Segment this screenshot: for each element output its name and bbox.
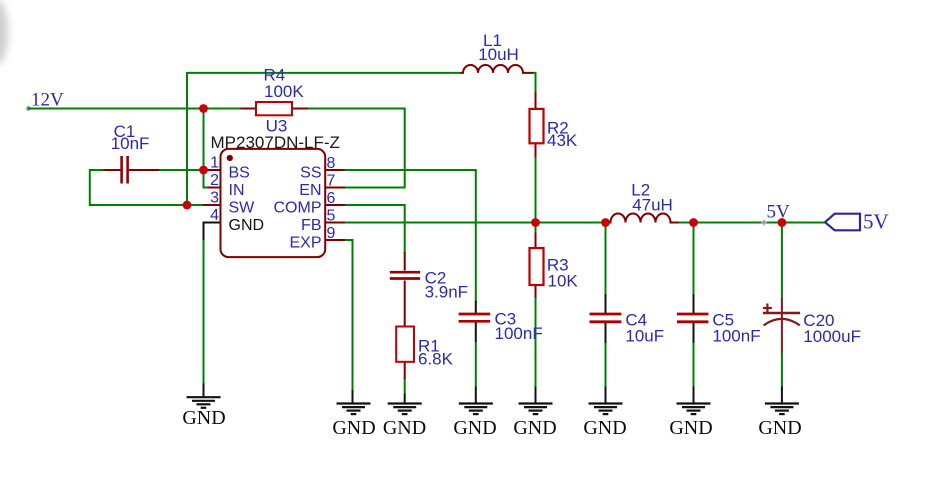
wire R4 right to EN corner	[308, 109, 405, 188]
wire C4 column	[605, 223, 607, 295]
capacitor C1	[104, 169, 121, 171]
wire R1 bottom green	[404, 378, 406, 394]
svg-text:BS: BS	[229, 164, 250, 181]
capacitor C4	[590, 313, 622, 316]
node 12V pin marker	[26, 106, 30, 110]
resistor R1	[404, 362, 406, 380]
pin 1 BS	[208, 169, 222, 171]
wire COMP to C2	[344, 205, 405, 253]
svg-text:GND: GND	[758, 417, 801, 439]
ground GND3 (R1)	[404, 394, 406, 404]
wire C5 column	[693, 223, 695, 295]
pin 8 SS	[326, 169, 346, 171]
ground GND4 (C3)	[475, 387, 477, 404]
junction BS node	[199, 166, 208, 175]
ground GND7 (C5)	[693, 387, 695, 404]
node 5V small marker	[761, 220, 767, 226]
svg-text:10uF: 10uF	[625, 327, 664, 346]
ground GND5 (R3)	[535, 387, 537, 404]
svg-text:SS: SS	[300, 164, 321, 181]
wire SS to C3	[344, 170, 476, 302]
inductor L2	[609, 214, 679, 223]
ground GND8 (C20)	[781, 387, 783, 404]
wire C1 right to BS junction	[158, 169, 204, 171]
wire BS junction to IN pin	[204, 169, 209, 188]
resistor R2	[535, 92, 537, 109]
wire GND pin4 black elbow	[204, 223, 222, 242]
svg-text:8: 8	[327, 155, 336, 172]
wire R2 bottom to rail	[535, 156, 537, 223]
svg-text:EN: EN	[299, 182, 321, 199]
ground GND1 (pin4)	[187, 397, 221, 408]
resistor R3	[535, 223, 537, 234]
svg-text:GND: GND	[669, 417, 712, 439]
wire L1 right corner	[532, 73, 536, 93]
svg-text:GND: GND	[453, 417, 496, 439]
svg-text:GND: GND	[332, 417, 375, 439]
svg-text:10nF: 10nF	[111, 134, 150, 153]
svg-text:3.9nF: 3.9nF	[425, 283, 468, 302]
wire C20 column green parts	[781, 223, 783, 300]
resistor R4	[241, 108, 257, 110]
wire C3 bottom green	[475, 342, 477, 387]
svg-text:1000uF: 1000uF	[803, 327, 861, 346]
wire C1 left horizontal	[90, 169, 105, 171]
wire 12V horizontal	[29, 108, 242, 110]
svg-text:9: 9	[327, 225, 336, 242]
wire rail L2 to 5V connector	[678, 222, 826, 224]
svg-text:4: 4	[210, 207, 219, 224]
capacitor C3	[459, 313, 491, 316]
ground GND2 (EXP)	[337, 404, 371, 415]
svg-text:5: 5	[327, 208, 336, 225]
svg-text:GND: GND	[182, 407, 225, 429]
IC pin-1 marker dot	[227, 155, 233, 161]
svg-text:7: 7	[327, 173, 336, 190]
junction rail C4	[601, 218, 610, 227]
wire EXP to ground	[344, 240, 353, 391]
wire C1 bottom to SW	[89, 204, 204, 206]
svg-text:MP2307DN-LF-Z: MP2307DN-LF-Z	[211, 133, 340, 152]
screen artifact top-left	[0, 0, 8, 64]
svg-text:COMP: COMP	[274, 199, 322, 216]
svg-text:100nF: 100nF	[495, 324, 543, 343]
pin 7 EN	[326, 187, 346, 189]
svg-text:GND: GND	[229, 217, 265, 234]
svg-text:5V: 5V	[767, 202, 791, 223]
ground GND6 (C4)	[605, 387, 607, 404]
capacitor C20 polarized	[781, 298, 783, 353]
junction rail C5	[689, 218, 698, 227]
junction 12V/R4	[199, 104, 208, 113]
junction rail R2	[531, 218, 540, 227]
svg-text:GND: GND	[383, 417, 426, 439]
svg-text:EXP: EXP	[289, 234, 321, 251]
svg-text:2: 2	[210, 172, 219, 189]
capacitor C2	[404, 252, 406, 271]
pin 5 FB	[326, 222, 346, 224]
svg-text:100K: 100K	[264, 82, 304, 101]
pin 3 SW	[203, 204, 222, 206]
wire C1 left vertical	[89, 169, 91, 205]
wire FB rail left	[344, 222, 611, 224]
capacitor C5	[677, 313, 708, 316]
svg-text:GND: GND	[583, 417, 626, 439]
wire C3 black stubs	[475, 301, 477, 313]
pin 6 COMP	[326, 204, 346, 206]
junction rail C20	[778, 218, 787, 227]
svg-text:100nF: 100nF	[712, 327, 760, 346]
inductor L1	[460, 65, 533, 73]
svg-text:10K: 10K	[548, 271, 579, 290]
svg-text:IN: IN	[229, 182, 245, 199]
svg-text:6: 6	[327, 190, 336, 207]
port 5V connector	[825, 214, 860, 231]
wire R3 bottom green	[535, 297, 537, 387]
svg-text:47uH: 47uH	[632, 196, 673, 215]
svg-text:3: 3	[210, 190, 219, 207]
svg-text:10uH: 10uH	[478, 45, 519, 64]
pin 9 EXP	[326, 239, 346, 241]
IC U3 MP2307DN-LF-Z body	[221, 149, 326, 257]
wire GND pin4 down green	[203, 240, 205, 384]
wire 12V to BS vertical	[203, 109, 205, 171]
svg-text:6.8K: 6.8K	[418, 350, 454, 369]
wire SW riser vertical	[186, 73, 188, 206]
svg-text:5V: 5V	[863, 210, 889, 234]
junction SW node	[183, 201, 192, 210]
pin 2 IN	[208, 187, 222, 189]
wire top horizontal to L1	[186, 72, 461, 74]
svg-text:GND: GND	[513, 417, 556, 439]
svg-text:SW: SW	[229, 199, 256, 216]
svg-text:1: 1	[210, 155, 219, 172]
svg-text:43K: 43K	[547, 131, 578, 150]
svg-text:FB: FB	[301, 217, 321, 234]
svg-text:12V: 12V	[31, 90, 64, 111]
